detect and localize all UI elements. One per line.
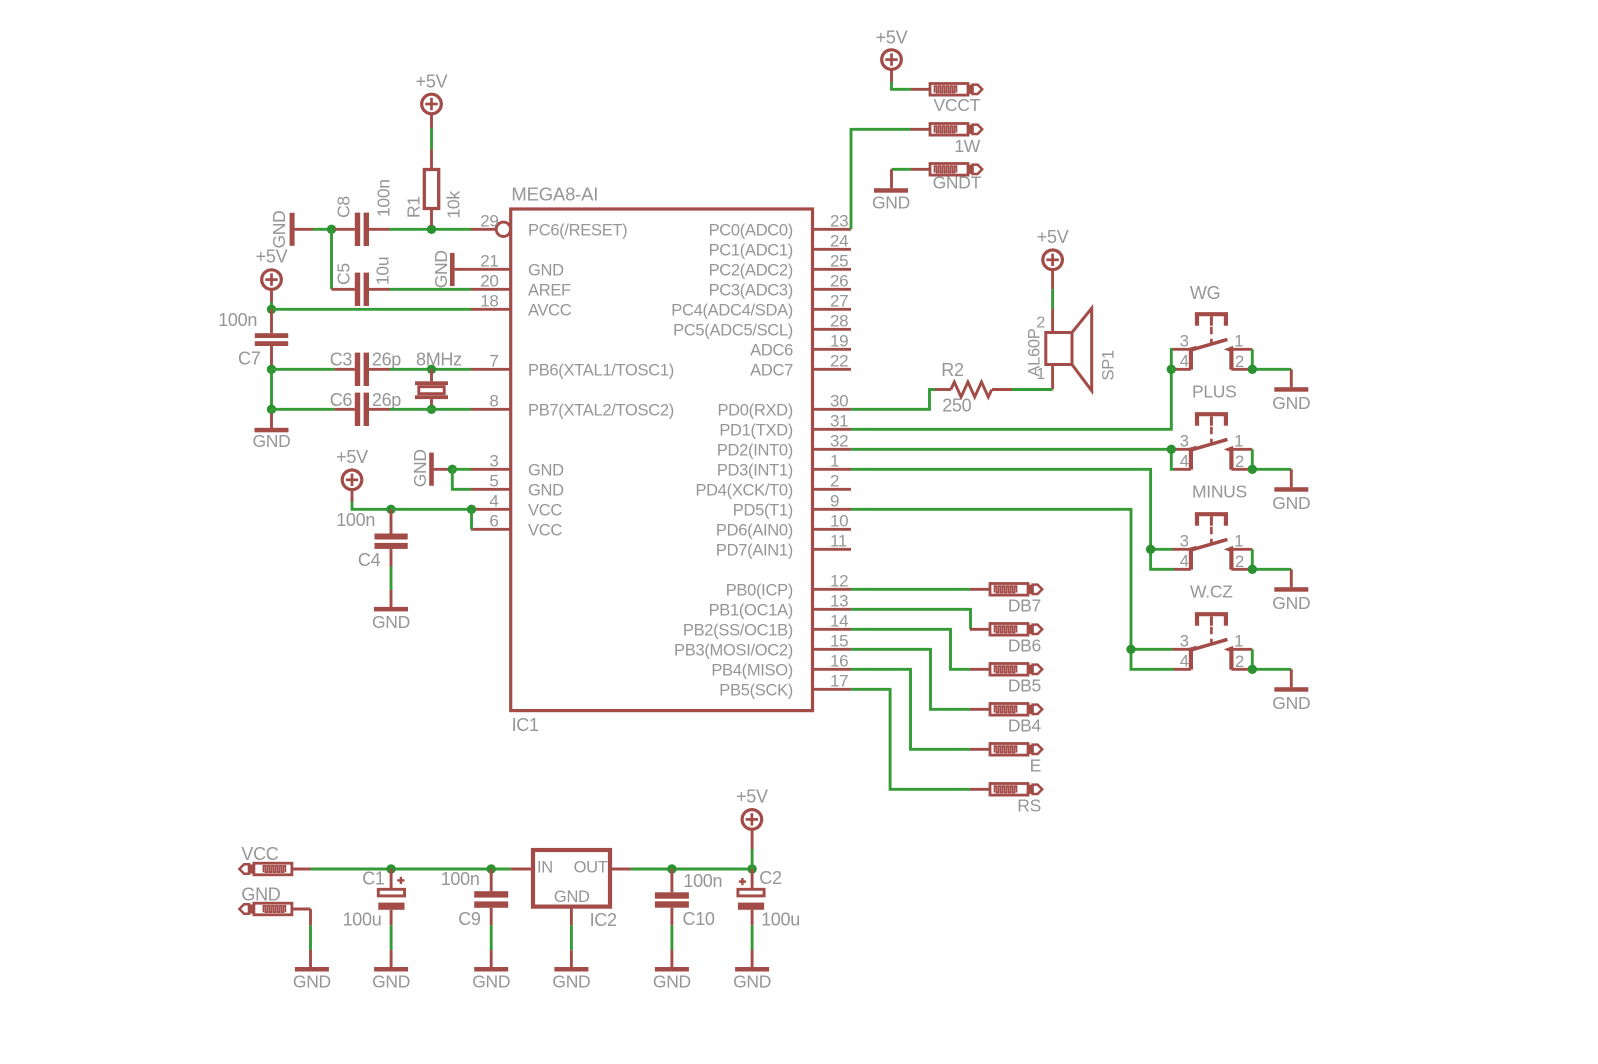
wire down to C6 node: [270, 369, 273, 409]
svg-text:8: 8: [489, 392, 498, 411]
wire gnd to pin3: [452, 468, 471, 471]
svg-text:PD5(T1): PD5(T1): [733, 501, 793, 519]
svg-text:PC5(ADC5/SCL): PC5(ADC5/SCL): [673, 321, 793, 339]
value 10u (C5): [373, 257, 393, 285]
svg-text:7: 7: [489, 352, 498, 371]
svg-text:C7: C7: [238, 349, 261, 369]
svg-text:C10: C10: [683, 909, 715, 929]
wire C3 to pin7: [390, 368, 472, 371]
svg-text:GND: GND: [528, 461, 564, 479]
wire R2 to pin30: [851, 390, 935, 410]
svg-text:PC6(/RESET): PC6(/RESET): [528, 221, 627, 239]
svg-text:100n: 100n: [374, 179, 394, 217]
power +5V (VCCT): [876, 28, 908, 83]
svg-text:PD4(XCK/T0): PD4(XCK/T0): [695, 481, 793, 499]
svg-text:VCC: VCC: [241, 844, 278, 864]
value 10k (R1): [444, 191, 464, 219]
node junction PLUS pin2: [1248, 465, 1257, 474]
pin 21 GND: [471, 252, 564, 280]
wire GND conn down: [309, 909, 312, 968]
wire OUT rail: [612, 868, 752, 871]
node junction R1/reset: [427, 225, 436, 234]
pin 6 VCC: [471, 512, 562, 540]
svg-text:18: 18: [480, 292, 498, 311]
op-amp IC2 voltage regulator: [533, 850, 617, 930]
svg-text:+5V: +5V: [336, 447, 368, 467]
connector VCC: [239, 844, 310, 875]
crystal Q1 8MHz: [415, 350, 462, 410]
node junction MINUS pin3: [1146, 545, 1155, 554]
capacitor C4: [358, 509, 408, 570]
svg-text:PB4(MISO): PB4(MISO): [711, 661, 793, 679]
svg-text:3: 3: [1180, 533, 1189, 551]
pin 14 PB2(SS/OC1B): [683, 612, 851, 640]
svg-text:22: 22: [830, 352, 848, 371]
svg-text:26: 26: [830, 272, 848, 291]
svg-text:3: 3: [489, 452, 498, 471]
svg-text:GND: GND: [410, 449, 430, 487]
wire pin to DB5: [851, 629, 970, 669]
node junction pin6: [467, 505, 476, 514]
wire AVCC to pin18: [272, 308, 472, 311]
connector DB5: [970, 664, 1042, 696]
svg-text:27: 27: [830, 292, 848, 311]
svg-text:DB4: DB4: [1008, 716, 1042, 736]
value 26p (C3): [372, 350, 401, 370]
svg-text:17: 17: [830, 672, 848, 691]
svg-text:32: 32: [830, 432, 848, 451]
op-amp IC1 MEGA8-AI microcontroller box: [511, 183, 813, 735]
svg-text:+5V: +5V: [876, 28, 908, 48]
svg-text:GND: GND: [653, 971, 691, 991]
capacitor C8: [334, 196, 390, 246]
switch S4 W.CZ: [1173, 581, 1253, 671]
svg-text:GND: GND: [1272, 593, 1310, 613]
svg-text:DB5: DB5: [1008, 676, 1041, 696]
svg-text:1: 1: [1234, 333, 1243, 351]
connector DB7: [970, 584, 1042, 616]
wire SP1 to R2: [1012, 388, 1053, 391]
svg-text:DB6: DB6: [1008, 636, 1041, 656]
svg-text:30: 30: [830, 392, 848, 411]
svg-text:6: 6: [489, 512, 498, 531]
svg-text:PB7(XTAL2/TOSC2): PB7(XTAL2/TOSC2): [528, 401, 674, 419]
svg-text:2: 2: [1235, 353, 1244, 371]
ground GND (C1): [372, 967, 410, 991]
svg-text:GND: GND: [293, 971, 331, 991]
wire MINUS right gnd: [1252, 549, 1291, 587]
svg-text:100u: 100u: [343, 909, 382, 929]
svg-text:4: 4: [1180, 453, 1189, 471]
pin 9 PD5(T1): [733, 492, 851, 520]
svg-text:MEGA8-AI: MEGA8-AI: [511, 183, 598, 204]
ground GND (IC2): [552, 967, 590, 991]
svg-text:4: 4: [1180, 553, 1189, 571]
capacitor C2 100u: [738, 868, 782, 925]
pin 1 PD3(INT1): [717, 452, 851, 480]
svg-text:12: 12: [830, 572, 848, 591]
svg-text:GND: GND: [554, 888, 590, 906]
pin 20 AREF: [471, 272, 571, 300]
wire pin to DB7: [851, 588, 970, 591]
value 100n (C9): [441, 869, 480, 889]
svg-text:PLUS: PLUS: [1192, 381, 1237, 401]
svg-text:C3: C3: [330, 350, 353, 370]
node junction C4: [386, 505, 395, 514]
svg-text:29: 29: [480, 212, 498, 231]
svg-text:24: 24: [830, 232, 848, 251]
pin 28 PC5(ADC5/SCL): [673, 312, 851, 340]
svg-text:GND: GND: [372, 971, 410, 991]
svg-text:PB3(MOSI/OC2): PB3(MOSI/OC2): [674, 641, 793, 659]
speaker SP1 AL60P: [1026, 308, 1118, 391]
value 100n (C7): [218, 310, 257, 330]
svg-text:IC2: IC2: [590, 910, 617, 930]
ground GND (C9): [472, 967, 510, 991]
node junction AVCC: [267, 305, 276, 314]
svg-text:OUT: OUT: [574, 858, 608, 876]
svg-text:GND: GND: [372, 612, 410, 632]
capacitor C6: [330, 390, 390, 426]
svg-text:26p: 26p: [372, 350, 401, 370]
svg-text:100u: 100u: [761, 909, 800, 929]
svg-text:C1: C1: [362, 869, 385, 889]
svg-text:PB5(SCK): PB5(SCK): [719, 681, 793, 699]
svg-text:PC4(ADC4/SDA): PC4(ADC4/SDA): [671, 301, 793, 319]
wire +5V down: [270, 302, 273, 309]
wire pin to DB4: [851, 649, 970, 709]
wire GNDT to gnd: [892, 169, 912, 188]
svg-text:2: 2: [1235, 453, 1244, 471]
connector RS: [970, 784, 1042, 816]
power +5V (R1 top): [416, 72, 448, 129]
svg-text:PD0(RXD): PD0(RXD): [717, 401, 793, 419]
svg-text:100n: 100n: [218, 310, 257, 330]
svg-text:C4: C4: [358, 550, 381, 570]
pin 31 PD1(TXD): [719, 412, 851, 440]
svg-text:AVCC: AVCC: [528, 301, 572, 319]
svg-text:VCCT: VCCT: [934, 95, 981, 115]
wire pin to E: [851, 669, 970, 749]
pin 27 PC4(ADC4/SDA): [671, 292, 851, 320]
svg-text:100n: 100n: [683, 871, 722, 891]
svg-text:VCC: VCC: [528, 501, 562, 519]
wire +5V to rail: [751, 849, 754, 869]
svg-text:2: 2: [830, 472, 839, 491]
capacitor C3: [330, 350, 390, 387]
pin 23 PC0(ADC0): [709, 212, 851, 240]
svg-text:10k: 10k: [444, 191, 464, 219]
wire xtal gnd: [270, 409, 273, 428]
svg-text:PD1(TXD): PD1(TXD): [719, 421, 793, 439]
svg-text:4: 4: [489, 492, 498, 511]
ground GND (W.CZ): [1272, 687, 1310, 713]
wire +5V to R1: [430, 128, 433, 150]
svg-text:C6: C6: [330, 390, 353, 410]
wire VCC rail: [311, 868, 511, 871]
svg-text:W.CZ: W.CZ: [1190, 581, 1233, 601]
svg-text:MINUS: MINUS: [1192, 481, 1247, 501]
pin 32 PD2(INT0): [717, 432, 851, 460]
svg-text:PB1(OC1A): PB1(OC1A): [709, 601, 793, 619]
connector GNDT: [911, 164, 982, 193]
ground GND (PLUS): [1272, 487, 1310, 513]
svg-text:PD2(INT0): PD2(INT0): [717, 441, 793, 459]
ground GND (pin 21 AREF): [431, 250, 471, 288]
connector E: [970, 744, 1042, 776]
capacitor C5: [332, 263, 390, 306]
pin 8 PB7(XTAL2/TOSC2): [471, 392, 674, 420]
wire PLUS pins34 to pin32 INT0: [851, 449, 1174, 469]
svg-text:31: 31: [830, 412, 848, 431]
node junction Q1 bottom: [427, 405, 436, 414]
capacitor C10 100n: [655, 869, 715, 929]
node junction xtal1: [267, 365, 276, 374]
value 100n (C4): [336, 510, 375, 530]
connector DB6: [970, 624, 1042, 656]
wire WCZ right gnd: [1252, 649, 1291, 687]
wire junction down C5: [330, 229, 333, 289]
svg-text:4: 4: [1180, 653, 1189, 671]
wire C9 gnd: [490, 925, 493, 967]
svg-text:WG: WG: [1190, 283, 1220, 303]
svg-text:3: 3: [1180, 433, 1189, 451]
svg-text:GND: GND: [241, 885, 280, 905]
ground GND (GNDT): [872, 188, 910, 212]
value 100n (C8): [374, 179, 394, 217]
node junction C9: [487, 864, 496, 873]
node junction C1: [386, 864, 395, 873]
svg-text:GND: GND: [528, 261, 564, 279]
svg-text:GND: GND: [552, 971, 590, 991]
pin 16 PB4(MISO): [711, 652, 851, 680]
svg-text:100n: 100n: [441, 869, 480, 889]
svg-text:16: 16: [830, 652, 848, 671]
ground GND (C4): [372, 607, 410, 632]
node junction WG pin4: [1167, 365, 1176, 374]
wire pin23 to 1W: [851, 129, 911, 229]
svg-text:GND: GND: [733, 971, 771, 991]
wire C6 node to C6: [272, 408, 335, 411]
resistor R1: [404, 150, 439, 227]
svg-text:1: 1: [1234, 433, 1243, 451]
svg-text:ADC7: ADC7: [750, 361, 793, 379]
pin 18 AVCC: [471, 292, 572, 320]
node junction C10: [667, 864, 676, 873]
svg-text:GND: GND: [431, 250, 451, 288]
svg-text:4: 4: [1180, 353, 1189, 371]
node junction C8-left: [327, 225, 336, 234]
svg-text:21: 21: [480, 252, 498, 271]
capacitor C9 100n: [458, 869, 508, 929]
svg-text:RS: RS: [1017, 796, 1041, 816]
wire C1 gnd: [390, 925, 393, 967]
node junction pin3 gnd: [448, 465, 457, 474]
svg-text:PC0(ADC0): PC0(ADC0): [709, 221, 793, 239]
ground GND (C2): [733, 967, 771, 991]
ground GND (input): [293, 967, 331, 991]
power +5V (AVCC): [256, 247, 288, 303]
svg-text:PB2(SS/OC1B): PB2(SS/OC1B): [683, 621, 793, 639]
svg-text:PC3(ADC3): PC3(ADC3): [709, 281, 793, 299]
ground GND (pins 3,5): [410, 449, 452, 487]
svg-text:ADC6: ADC6: [750, 341, 793, 359]
wire IC2 gnd pin: [570, 908, 573, 967]
svg-text:250: 250: [942, 396, 971, 416]
svg-text:9: 9: [830, 492, 839, 511]
pin 7 PB6(XTAL1/TOSC1): [471, 352, 674, 380]
svg-text:10: 10: [830, 512, 848, 531]
ground GND (xtal): [253, 428, 291, 451]
svg-text:IN: IN: [537, 858, 553, 876]
svg-text:+5V: +5V: [1037, 227, 1069, 247]
pin 5 GND: [471, 472, 564, 500]
ground GND (C10): [653, 967, 691, 991]
wire pin to DB6: [851, 609, 971, 629]
wire +5V to SP1: [1051, 289, 1054, 309]
svg-text:PB6(XTAL1/TOSC1): PB6(XTAL1/TOSC1): [528, 361, 674, 379]
pin 19 ADC6: [750, 332, 851, 360]
wire pin to RS: [851, 689, 970, 789]
svg-text:25: 25: [830, 252, 848, 271]
wire C8 to R1 node and pin29: [390, 228, 472, 231]
svg-text:15: 15: [830, 632, 848, 651]
ground GND (MINUS): [1272, 587, 1310, 613]
wire WG pins34 to pin31 TXD: [851, 349, 1173, 429]
pin 30 PD0(RXD): [717, 392, 851, 420]
wire C6 to pin8: [390, 408, 472, 411]
svg-text:GND: GND: [253, 431, 291, 451]
resistor R2: [935, 360, 1012, 416]
connector 1W: [911, 124, 983, 157]
svg-text:10u: 10u: [373, 257, 393, 285]
svg-text:R1: R1: [404, 196, 424, 218]
node junction PLUS pin3: [1167, 445, 1176, 454]
svg-text:GND: GND: [528, 481, 564, 499]
value 100u (C2): [761, 909, 800, 929]
pin 15 PB3(MOSI/OC2): [674, 632, 851, 660]
svg-text:+5V: +5V: [416, 72, 448, 92]
svg-text:19: 19: [830, 332, 848, 351]
svg-text:1: 1: [1234, 633, 1243, 651]
svg-text:DB7: DB7: [1008, 596, 1041, 616]
wire C2 gnd: [751, 925, 754, 967]
svg-text:PD3(INT1): PD3(INT1): [717, 461, 793, 479]
wire C4 gnd: [390, 567, 393, 608]
wire +5V to VCC rail: [352, 502, 391, 509]
switch S2 PLUS: [1173, 381, 1253, 471]
svg-text:GND: GND: [269, 211, 289, 249]
pin 29 PC6(/RESET): [471, 212, 627, 240]
svg-text:8MHz: 8MHz: [416, 350, 462, 370]
node junction Q1 top: [427, 365, 436, 374]
svg-text:GND: GND: [472, 971, 510, 991]
wire gnd to pin5: [452, 469, 471, 489]
svg-text:26p: 26p: [372, 390, 401, 410]
value 100n (C10): [683, 871, 722, 891]
node junction WG pin2: [1248, 365, 1257, 374]
wire rail to IC2: [511, 868, 531, 871]
connector GND input: [239, 885, 310, 915]
ground GND (C8 left): [269, 211, 313, 249]
wire +5V to VCCT: [892, 82, 912, 89]
pin 17 PB5(SCK): [719, 672, 851, 700]
svg-text:+5V: +5V: [736, 787, 768, 807]
svg-text:GND: GND: [1272, 693, 1310, 713]
pin 12 PB0(ICP): [726, 572, 851, 600]
pin 4 VCC: [471, 492, 562, 520]
wire to pin6: [470, 509, 473, 529]
pin 22 ADC7: [750, 352, 851, 380]
power +5V (output): [736, 787, 768, 850]
svg-text:AL60P: AL60P: [1026, 328, 1044, 376]
svg-text:2: 2: [1235, 553, 1244, 571]
wire C5 to pin20 AREF: [390, 288, 472, 291]
svg-text:PC2(ADC2): PC2(ADC2): [709, 261, 793, 279]
node junction xtal2: [267, 405, 276, 414]
svg-text:IC1: IC1: [512, 715, 539, 735]
svg-text:SP1: SP1: [1100, 350, 1118, 380]
connector DB4: [970, 704, 1042, 736]
svg-text:AREF: AREF: [528, 281, 571, 299]
wire C10 gnd: [670, 925, 673, 967]
svg-text:E: E: [1030, 756, 1041, 776]
svg-text:13: 13: [830, 592, 848, 611]
pin 3 GND: [471, 452, 564, 480]
wire MINUS pins34 to pin1 INT1: [851, 469, 1174, 569]
svg-text:C5: C5: [334, 263, 354, 285]
svg-text:C2: C2: [759, 868, 782, 888]
connector VCCT: [911, 84, 982, 116]
svg-text:C8: C8: [334, 196, 354, 218]
pin 26 PC3(ADC3): [709, 272, 851, 300]
wire WCZ pins34 to pin9 T1: [851, 509, 1174, 669]
svg-text:100n: 100n: [336, 510, 375, 530]
switch S1 WG: [1173, 283, 1253, 371]
svg-text:VCC: VCC: [528, 521, 562, 539]
svg-text:14: 14: [830, 612, 848, 631]
node junction WCZ pin3: [1126, 645, 1135, 654]
svg-text:PB0(ICP): PB0(ICP): [726, 581, 793, 599]
svg-text:PD7(AIN1): PD7(AIN1): [716, 541, 793, 559]
value 26p (C6): [372, 390, 401, 410]
svg-text:PD6(AIN0): PD6(AIN0): [716, 521, 793, 539]
svg-text:20: 20: [480, 272, 498, 291]
svg-text:C9: C9: [458, 909, 481, 929]
node junction C2: [747, 864, 756, 873]
wire to pin4: [391, 508, 472, 511]
value 100u (C1): [343, 909, 382, 929]
capacitor C1 100u: [362, 869, 404, 926]
svg-text:GND: GND: [1272, 493, 1310, 513]
power +5V (SP1): [1037, 227, 1069, 289]
svg-text:GND: GND: [1272, 393, 1310, 413]
wire PLUS right gnd: [1252, 449, 1291, 487]
svg-text:28: 28: [830, 312, 848, 331]
power +5V (VCC pins): [336, 447, 368, 502]
svg-text:GNDT: GNDT: [933, 173, 982, 193]
svg-text:5: 5: [489, 472, 498, 491]
svg-text:3: 3: [1180, 333, 1189, 351]
svg-text:R2: R2: [941, 360, 964, 380]
pin 10 PD6(AIN0): [716, 512, 851, 540]
svg-text:2: 2: [1235, 653, 1244, 671]
svg-text:+5V: +5V: [256, 247, 288, 267]
svg-text:11: 11: [830, 532, 847, 551]
pin 2 PD4(XCK/T0): [695, 472, 851, 500]
svg-text:GND: GND: [872, 192, 910, 212]
svg-text:1: 1: [1234, 533, 1243, 551]
